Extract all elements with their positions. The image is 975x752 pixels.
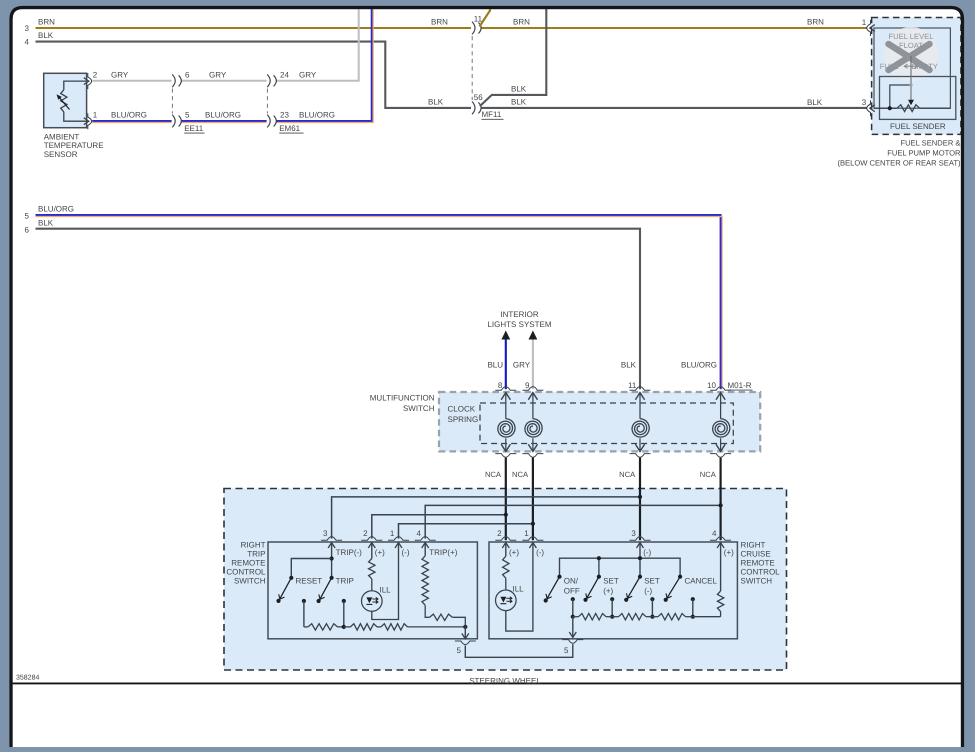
svg-text:1: 1 xyxy=(93,111,98,120)
svg-text:(+): (+) xyxy=(724,548,734,557)
fuel box pin 1 xyxy=(870,25,875,32)
svg-text:BLK: BLK xyxy=(621,361,637,370)
wire BRN row 3 left segment xyxy=(36,27,472,29)
multifunction switch dashed box xyxy=(439,392,760,451)
wire NCA 1 xyxy=(505,458,507,541)
wire BLU/ORG EE11 to EM61 xyxy=(181,120,266,122)
reset fixed contact xyxy=(302,599,306,603)
svg-text:1: 1 xyxy=(524,529,529,538)
svg-text:1: 1 xyxy=(862,18,867,27)
svg-text:2: 2 xyxy=(363,529,368,538)
connector EM61 dashed link xyxy=(266,89,268,114)
fuel sender and fuel pump motor dashed box xyxy=(872,18,961,135)
svg-text:24: 24 xyxy=(280,71,289,80)
wire BRN branch up from pin 11 to top edge xyxy=(480,9,491,27)
crossed-out X xyxy=(889,44,930,70)
svg-text:358284: 358284 xyxy=(16,675,39,682)
svg-text:ILL: ILL xyxy=(513,585,525,594)
svg-text:BLK: BLK xyxy=(511,84,527,93)
svg-text:SENSOR: SENSOR xyxy=(44,150,78,159)
svg-text:CONTROL: CONTROL xyxy=(226,567,266,576)
right box pin 1 xyxy=(522,537,543,541)
svg-text:REMOTE: REMOTE xyxy=(741,559,775,568)
svg-text:EM61: EM61 xyxy=(279,124,300,133)
left box pin 4 xyxy=(415,537,436,541)
svg-text:FUEL PUMP MOTOR: FUEL PUMP MOTOR xyxy=(887,148,961,157)
wiper loop to pin 3 xyxy=(890,85,911,108)
clock spring coil at x=532.9 xyxy=(522,387,543,391)
ILL lamp (right) xyxy=(496,590,517,611)
svg-text:ILL: ILL xyxy=(380,585,392,594)
svg-text:4: 4 xyxy=(25,38,30,47)
svg-text:GRY: GRY xyxy=(111,70,129,79)
wire BLU to interior lights with arrow xyxy=(501,331,510,340)
svg-text:SWITCH: SWITCH xyxy=(741,576,773,585)
pin5 to pin5 link wire xyxy=(465,644,573,657)
svg-text:BLU: BLU xyxy=(487,361,503,370)
switch SET(-) xyxy=(638,575,642,579)
svg-text:CONTROL: CONTROL xyxy=(741,567,781,576)
svg-text:REMOTE: REMOTE xyxy=(231,559,265,568)
clock spring coil at x=640.0 xyxy=(630,387,651,391)
ILL lamp return loop (right) xyxy=(506,543,533,632)
sensor pin 2 xyxy=(84,78,89,85)
connector EE11 pin 5 xyxy=(172,115,175,128)
svg-text:1: 1 xyxy=(390,529,395,538)
switch TRIP xyxy=(330,576,334,580)
svg-text:RIGHT: RIGHT xyxy=(241,541,266,550)
svg-text:BLU/ORG: BLU/ORG xyxy=(205,111,241,120)
svg-text:FUEL LEVEL: FUEL LEVEL xyxy=(889,32,934,41)
connector EE11 pin 6 xyxy=(172,74,175,87)
svg-text:6: 6 xyxy=(25,225,30,234)
svg-text:BLU/ORG: BLU/ORG xyxy=(38,205,74,214)
svg-text:BLK: BLK xyxy=(428,97,444,106)
svg-text:EE11: EE11 xyxy=(184,124,204,133)
svg-text:BLK: BLK xyxy=(38,31,54,40)
sensor pin 1 xyxy=(84,118,89,125)
switch ON/OFF xyxy=(557,575,561,579)
svg-text:FLOAT: FLOAT xyxy=(899,41,923,50)
switch CANCEL xyxy=(678,575,682,579)
steering wheel dashed box xyxy=(224,489,787,671)
trip fixed contact xyxy=(342,599,346,603)
svg-text:BLU/ORG: BLU/ORG xyxy=(111,111,147,120)
wire BLK row 6 to clock spring pin 11 xyxy=(36,229,641,390)
right box pin 3 xyxy=(630,537,651,541)
trip(+) resistor path xyxy=(424,543,426,556)
full-empty double arrow xyxy=(905,65,918,67)
svg-text:3: 3 xyxy=(323,529,328,538)
connector EM61 pin 23 xyxy=(267,115,270,128)
routing rail y=515 left pin2 to BLU wire xyxy=(372,515,506,539)
connector EE11 dashed link xyxy=(171,89,173,114)
wire BLU/ORG row 5 to clock spring pin 10 xyxy=(36,215,721,389)
svg-text:OFF: OFF xyxy=(564,587,580,596)
svg-text:5: 5 xyxy=(564,646,569,655)
routing rail y=505 left pin4 to BLU/ORG wire xyxy=(425,505,720,538)
svg-text:TEMPERATURE: TEMPERATURE xyxy=(44,141,104,150)
wire NCA 3 xyxy=(639,458,641,541)
left box pin 3 xyxy=(321,537,342,541)
fuel sender box xyxy=(880,77,956,120)
ILL lamp (left) xyxy=(362,591,383,612)
svg-text:3: 3 xyxy=(25,24,30,33)
right box pin 5 exit xyxy=(572,617,574,638)
svg-text:(BELOW CENTER OF REAR SEAT): (BELOW CENTER OF REAR SEAT) xyxy=(837,158,961,167)
svg-text:MULTIFUNCTION: MULTIFUNCTION xyxy=(370,394,435,403)
svg-text:BLU/ORG: BLU/ORG xyxy=(299,111,335,120)
svg-text:(-): (-) xyxy=(402,548,410,557)
wire BLK row 4: left then down at x=385.3 then right to MF11 xyxy=(36,42,472,108)
cruise fixed contacts xyxy=(571,597,575,601)
svg-text:CLOCK: CLOCK xyxy=(448,405,476,414)
fuel sender resistor track xyxy=(874,107,897,109)
fuel box pin 3 xyxy=(870,105,875,112)
reset branch wire xyxy=(291,559,331,578)
svg-text:6: 6 xyxy=(185,71,190,80)
ILL lamp return loop (left) xyxy=(372,543,399,620)
wire BLU/ORG EM61 up to top edge xyxy=(276,9,372,121)
clock spring coil at x=720.6 xyxy=(710,387,731,391)
connector MF11 pin 11 xyxy=(472,22,475,35)
wire GRY to interior lights with arrow xyxy=(529,331,538,340)
routing rail y=524 left pin1 to GRY wire xyxy=(399,524,533,539)
svg-text:LIGHTS SYSTEM: LIGHTS SYSTEM xyxy=(487,320,551,329)
svg-text:TRIP(-): TRIP(-) xyxy=(336,548,363,557)
svg-text:BLU/ORG: BLU/ORG xyxy=(681,361,717,370)
trip(-) feed wire xyxy=(331,543,333,578)
left box pin 5 exit xyxy=(464,627,466,639)
thermistor resistor xyxy=(61,90,67,112)
routing rail y=497 left pin3 to BLK wire xyxy=(332,497,640,539)
svg-text:M01-R: M01-R xyxy=(728,381,752,390)
svg-text:BRN: BRN xyxy=(513,18,530,27)
svg-text:BRN: BRN xyxy=(431,18,448,27)
svg-text:SPRING: SPRING xyxy=(448,415,479,424)
svg-text:23: 23 xyxy=(280,111,289,120)
wire BLK right segment MF11 to fuel sender pin 3 xyxy=(481,107,867,109)
wire BLU/ORG pin1 to EE11 xyxy=(92,120,171,122)
ILL lamp feed resistor (left) xyxy=(371,543,373,559)
svg-text:5: 5 xyxy=(185,111,190,120)
svg-text:NCA: NCA xyxy=(619,470,636,479)
svg-text:11: 11 xyxy=(628,381,637,390)
svg-text:TRIP: TRIP xyxy=(336,577,354,586)
svg-text:3: 3 xyxy=(862,98,867,107)
svg-text:(-): (-) xyxy=(536,548,544,557)
left box resistor chain xyxy=(308,624,338,630)
fuel level float inner rect xyxy=(874,28,950,108)
switch RESET xyxy=(289,576,293,580)
cruise rail xyxy=(639,543,641,577)
svg-text:RESET: RESET xyxy=(296,577,323,586)
svg-text:BLK: BLK xyxy=(807,98,823,107)
ambient temperature sensor box xyxy=(44,73,87,127)
left box pin 1 xyxy=(388,537,409,541)
wire BLK branch from pin 56 up-right to top edge xyxy=(480,9,547,106)
svg-text:3: 3 xyxy=(631,529,636,538)
thermistor arrow xyxy=(59,97,70,109)
svg-text:4: 4 xyxy=(712,529,717,538)
svg-text:GRY: GRY xyxy=(209,70,227,79)
svg-text:AMBIENT: AMBIENT xyxy=(44,133,80,142)
connector MF11 dashed link xyxy=(471,36,473,100)
svg-text:2: 2 xyxy=(93,71,98,80)
clock spring dashed box xyxy=(480,403,733,444)
svg-text:RIGHT: RIGHT xyxy=(741,541,766,550)
svg-text:5: 5 xyxy=(457,646,462,655)
svg-text:SWITCH: SWITCH xyxy=(403,404,435,413)
svg-text:(+): (+) xyxy=(509,548,519,557)
svg-text:STEERING WHEEL: STEERING WHEEL xyxy=(469,676,541,685)
svg-text:FUEL SENDER: FUEL SENDER xyxy=(890,122,946,131)
svg-text:GRY: GRY xyxy=(299,70,317,79)
fuel level float backdrop circle xyxy=(884,27,938,81)
svg-text:FULL: FULL xyxy=(880,62,899,71)
svg-text:(+): (+) xyxy=(375,548,385,557)
svg-text:NCA: NCA xyxy=(700,470,717,479)
svg-text:TRIP(+): TRIP(+) xyxy=(429,548,458,557)
connector EM61 pin 24 xyxy=(267,74,270,87)
svg-text:GRY: GRY xyxy=(513,361,531,370)
svg-text:BLK: BLK xyxy=(38,218,54,227)
svg-text:FUEL SENDER &: FUEL SENDER & xyxy=(900,138,960,147)
svg-text:SET: SET xyxy=(644,577,660,586)
connector MF11 pin 56 xyxy=(472,102,475,115)
svg-text:CRUISE: CRUISE xyxy=(741,550,771,559)
svg-text:(-): (-) xyxy=(643,548,651,557)
sheet bottom border line xyxy=(13,682,961,684)
svg-text:4: 4 xyxy=(417,529,422,538)
svg-text:BRN: BRN xyxy=(38,18,55,27)
wire BRN row 3 right segment xyxy=(481,27,867,29)
wire GRY EE11 to EM61 xyxy=(181,80,266,82)
right cruise remote control switch box xyxy=(489,542,737,639)
svg-text:INTERIOR: INTERIOR xyxy=(500,310,538,319)
switch SET(+) xyxy=(597,575,601,579)
svg-text:ON/: ON/ xyxy=(564,577,579,586)
svg-text:BLK: BLK xyxy=(511,97,527,106)
svg-text:BRN: BRN xyxy=(807,18,824,27)
ILL lamp feed resistor (right) xyxy=(505,543,507,557)
svg-text:(+): (+) xyxy=(603,587,613,596)
right box pin 2 xyxy=(495,537,516,541)
svg-text:10: 10 xyxy=(707,381,716,390)
svg-text:SET: SET xyxy=(603,577,619,586)
svg-text:5: 5 xyxy=(25,211,30,220)
svg-text:56: 56 xyxy=(474,93,483,102)
cruise chain resistor to pin 4 xyxy=(720,612,722,617)
clock spring coil at x=505.8 xyxy=(495,387,516,391)
wire NCA 2 xyxy=(532,458,534,541)
svg-text:TRIP: TRIP xyxy=(247,550,265,559)
svg-text:(-): (-) xyxy=(644,587,652,596)
cruise resistor chain xyxy=(573,616,579,618)
wiper arm line from float xyxy=(910,56,912,102)
wire GRY pin2 to EE11 xyxy=(92,80,171,82)
svg-text:NCA: NCA xyxy=(485,470,502,479)
right box pin 4 xyxy=(710,537,731,541)
thermistor leads xyxy=(64,81,86,90)
right trip remote control switch box xyxy=(268,542,477,639)
wire GRY EM61 up to top edge xyxy=(276,9,359,81)
svg-text:NCA: NCA xyxy=(512,470,529,479)
svg-text:2: 2 xyxy=(497,529,502,538)
wire NCA 4 xyxy=(719,458,721,541)
left box pin 2 xyxy=(361,537,382,541)
svg-text:MF11: MF11 xyxy=(482,110,502,119)
svg-text:SWITCH: SWITCH xyxy=(234,576,266,585)
svg-text:CANCEL: CANCEL xyxy=(685,577,718,586)
